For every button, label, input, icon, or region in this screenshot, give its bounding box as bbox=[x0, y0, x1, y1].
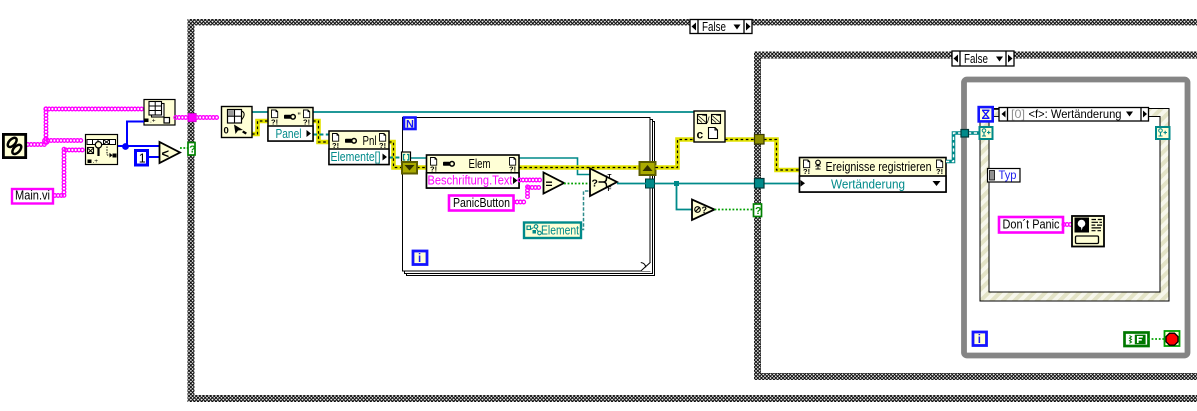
tunnel: yellow on inner case bbox=[755, 135, 765, 145]
svg-text:?: ? bbox=[189, 144, 195, 156]
wire: long teal refnum line (index array to conversion node) bbox=[252, 111, 694, 113]
svg-text:Elem: Elem bbox=[469, 156, 491, 171]
tunnel: outer case selector ? bbox=[188, 143, 196, 156]
node: Index Array bbox=[222, 107, 253, 138]
event structure timeout terminal (hourglass) bbox=[979, 107, 993, 121]
svg-text:i: i bbox=[418, 253, 421, 265]
node: event data Typ bbox=[988, 168, 1021, 182]
constant: Main.vi string bbox=[12, 189, 53, 204]
wire: magenta vertical junction up bbox=[44, 107, 48, 144]
constant: Don´t Panic bbox=[999, 217, 1063, 233]
svg-text:Main.vi: Main.vi bbox=[15, 189, 50, 203]
svg-text:False: False bbox=[964, 52, 988, 66]
wire: magenta from top node to tunnel bbox=[174, 116, 188, 120]
svg-text:.+: .+ bbox=[150, 118, 156, 125]
wire: green dotted to stop terminal bbox=[1148, 338, 1164, 340]
node: select bbox=[590, 169, 617, 197]
svg-text:Elemente[]: Elemente[] bbox=[331, 149, 381, 164]
wire: teal from loop tunnel to register node bbox=[655, 183, 755, 185]
wire: teal dashed Panel out bbox=[313, 134, 329, 136]
svg-text:PanicButton: PanicButton bbox=[453, 195, 510, 210]
wire: magenta chain from Open VI Ref to junction bbox=[26, 143, 46, 147]
tunnel: inner case selector ? bbox=[754, 204, 762, 217]
wire: green dotted equal to select bbox=[564, 183, 590, 185]
constant: 1 bbox=[136, 151, 148, 166]
wire: green dotted to inner case selector bbox=[715, 209, 754, 211]
svg-text:Beschriftung.Text: Beschriftung.Text bbox=[428, 173, 513, 187]
wire: teal-dashed inside while loop bbox=[968, 131, 980, 135]
svg-text:?!: ?! bbox=[936, 167, 943, 176]
node: blue junction dot bbox=[122, 143, 129, 150]
wire: green dotted to case selector bbox=[180, 147, 188, 149]
tunnel: teal on while loop border bbox=[961, 130, 969, 138]
constant: PanicButton bbox=[449, 195, 514, 211]
svg-text:?!: ?! bbox=[803, 167, 810, 176]
outer case selector label "False" bbox=[690, 20, 752, 34]
svg-text:<: < bbox=[162, 146, 170, 161]
svg-text:Don´t Panic: Don´t Panic bbox=[1003, 217, 1061, 232]
node: property node Pnl (Elemente[]) bbox=[329, 131, 389, 165]
wire: yellow conversion to inner tunnel bbox=[725, 137, 754, 142]
svg-text:T: T bbox=[608, 174, 612, 181]
outer case top border bbox=[188, 19, 1197, 26]
tunnel: up arrow on right border bbox=[640, 162, 656, 175]
wire: magenta junction to open-vi-object node bbox=[46, 139, 83, 143]
svg-text:Pnl: Pnl bbox=[363, 133, 377, 148]
wire: pink chain PanicButton to equal bbox=[512, 200, 526, 204]
svg-text:[0]: [0] bbox=[1011, 107, 1025, 121]
tunnel: teal on inner case bbox=[755, 179, 765, 189]
svg-text:<f>: Wertänderung: <f>: Wertänderung bbox=[1029, 107, 1122, 121]
svg-text:c: c bbox=[697, 128, 704, 142]
wire: pink chain Beschriftung.Text to equal bbox=[518, 178, 541, 182]
node: boolean false constant bbox=[1125, 333, 1149, 347]
wire: blue vertical to top node bbox=[126, 121, 128, 147]
terminal: dynamic event left bbox=[980, 127, 993, 139]
node: property node Elem (Beschriftung.Text) bbox=[427, 155, 520, 188]
tunnel: magenta on outer case bbox=[188, 114, 196, 122]
wire: teal select output to loop tunnel bbox=[617, 183, 646, 185]
svg-text:=: = bbox=[546, 177, 553, 191]
svg-text:F: F bbox=[608, 186, 612, 193]
node: array-of-refs node (top) bbox=[144, 100, 175, 126]
wire: yellow loop tunnel to conversion node bbox=[656, 140, 695, 168]
wire: teal dashed Element to select bbox=[581, 191, 590, 230]
wire: teal dashed Elemente[] out bbox=[389, 157, 402, 159]
svg-text:0: 0 bbox=[224, 126, 229, 137]
node: Element strictly-typed VI ref bbox=[524, 223, 581, 239]
svg-text:i: i bbox=[978, 334, 981, 346]
node: Open VI Object Reference bbox=[86, 135, 118, 166]
wire: magenta top horizontal to array node bbox=[44, 107, 143, 111]
inner case left border bbox=[754, 52, 761, 381]
wire: magenta from Main.vi bbox=[53, 194, 63, 198]
svg-text:Ereignisse registrieren: Ereignisse registrieren bbox=[826, 159, 932, 174]
inner case bottom border bbox=[754, 373, 1197, 380]
node: teal junction dot bbox=[674, 181, 679, 186]
node: less than? bbox=[160, 142, 181, 163]
node: junction blob bbox=[43, 138, 49, 144]
wire: magenta tunnel to Index Array bbox=[195, 116, 218, 120]
terminal: i iteration (while loop) bbox=[973, 332, 987, 346]
node: property node 1 (Panel) bbox=[268, 108, 313, 142]
svg-text:?: ? bbox=[755, 205, 761, 217]
svg-text:Panel: Panel bbox=[276, 126, 302, 141]
wire: yellow main line inside loop bbox=[417, 165, 639, 170]
terminal: loop condition (stop) bbox=[1165, 331, 1180, 346]
outer case bottom border bbox=[188, 395, 1197, 402]
wire: teal-dashed event reg out to while loop bbox=[946, 133, 961, 162]
wire: teal branch down to not-a-refnum bbox=[677, 184, 693, 210]
wire: blue from constant 1 bbox=[147, 156, 159, 158]
event border stub left of selector bbox=[992, 110, 1000, 117]
tunnel: indexed element (down arrow) bbox=[402, 162, 417, 174]
wire: pink chain to dialog bbox=[1062, 223, 1072, 227]
node: conversion (variant) bbox=[694, 111, 725, 142]
wire: yellow Pnl node to for-loop tunnel bbox=[389, 142, 403, 168]
wire: yellow index array to property node 1 bbox=[252, 121, 268, 134]
wire: yellow property node 1 to Pnl node bbox=[313, 121, 329, 142]
svg-text:N: N bbox=[406, 119, 414, 131]
svg-text:1: 1 bbox=[139, 152, 146, 166]
event structure selector "[0] <f>: Wertänderung" bbox=[999, 107, 1149, 121]
svg-text:Typ: Typ bbox=[999, 168, 1017, 182]
page fold corner bbox=[641, 263, 651, 272]
node: one button dialog bbox=[1072, 216, 1104, 247]
wire: blue from object node to less-than bbox=[118, 145, 159, 147]
inner case top border bbox=[754, 52, 1197, 59]
node: equal? bbox=[544, 173, 565, 194]
svg-text:?!: ?! bbox=[303, 118, 310, 127]
svg-text:?!: ?! bbox=[509, 165, 516, 174]
node: not a number/path/refnum? bbox=[692, 200, 715, 221]
inner case selector label "False" bbox=[952, 51, 1014, 66]
terminal: i iteration (for loop) bbox=[413, 251, 427, 265]
svg-text:?!: ?! bbox=[430, 165, 437, 174]
svg-text:Element: Element bbox=[541, 223, 579, 238]
svg-text:?: ? bbox=[592, 178, 598, 190]
outer case left border bbox=[188, 19, 195, 402]
icon: Open VI Reference (chain link) bbox=[3, 134, 25, 157]
svg-text:": " bbox=[298, 111, 301, 121]
tunnel: teal on right border bbox=[646, 179, 655, 188]
terminal: N count bbox=[404, 118, 416, 131]
tunnel: auto-index [] on left border bbox=[402, 152, 411, 163]
svg-text:.+: .+ bbox=[93, 158, 99, 165]
svg-text:Wertänderung: Wertänderung bbox=[831, 176, 905, 191]
wire: teal inside loop to Elem node bbox=[410, 158, 590, 175]
svg-text:?: ? bbox=[702, 205, 708, 215]
svg-text:False: False bbox=[702, 20, 726, 34]
terminal: dynamic event right bbox=[1156, 127, 1170, 139]
wire: yellow inner tunnel to register node bbox=[764, 140, 800, 171]
